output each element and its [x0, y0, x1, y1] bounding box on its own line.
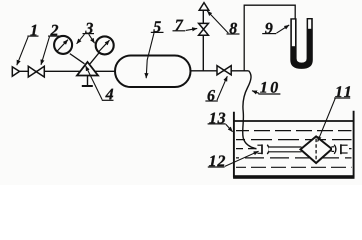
wire manometer pipe: [244, 5, 295, 71]
valve V2: [28, 66, 44, 77]
label 3: [77, 23, 95, 44]
label 5: [146, 21, 163, 78]
label 10: [252, 82, 280, 94]
water level dashes: [236, 131, 352, 168]
pipe 10: [243, 71, 259, 149]
regulator R4: [77, 62, 98, 86]
label 11: [318, 86, 351, 141]
label 2: [41, 25, 60, 65]
mixer M11: [301, 136, 332, 163]
valve V7: [199, 23, 209, 35]
label 4: [86, 66, 114, 101]
label 9: [262, 23, 289, 34]
label 7: [173, 20, 198, 31]
label 13: [208, 113, 233, 132]
receiver T5: [115, 56, 191, 88]
wire main line left: [19, 70, 116, 72]
tube left: [268, 147, 301, 152]
gauge PG3a: [54, 36, 72, 54]
wire gauge stems: [70, 53, 99, 64]
nozzle 12: [257, 144, 272, 155]
gauge PG3b: [96, 36, 114, 54]
tank 13: [233, 111, 354, 179]
wire main line right: [191, 70, 249, 72]
valve V6: [217, 66, 231, 75]
inlet cone 1: [12, 67, 19, 76]
label 12: [208, 151, 259, 167]
wire vent branch: [202, 10, 204, 71]
label 1: [17, 25, 39, 65]
label 8: [207, 11, 239, 34]
vent cone 8: [199, 3, 209, 11]
manometer U9: [290, 18, 313, 69]
tube right: [331, 144, 349, 155]
label 6: [205, 76, 227, 101]
